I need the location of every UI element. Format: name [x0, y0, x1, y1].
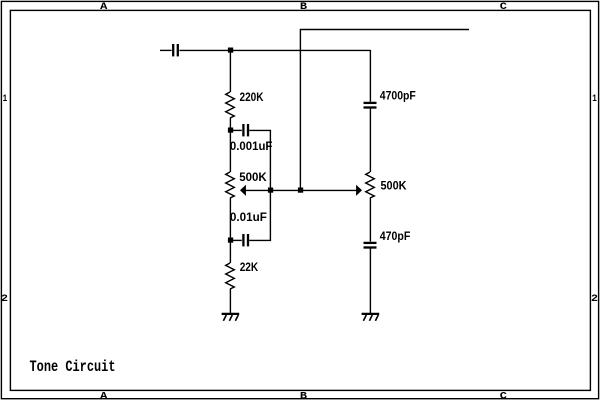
svg-text:Tone Circuit: Tone Circuit [30, 358, 116, 376]
svg-text:2: 2 [591, 294, 598, 305]
svg-text:500K: 500K [381, 179, 407, 193]
svg-text:470pF: 470pF [380, 229, 411, 243]
svg-text:A: A [100, 2, 107, 13]
svg-text:220K: 220K [240, 90, 264, 104]
svg-text:1: 1 [592, 94, 597, 105]
svg-text:500K: 500K [239, 170, 267, 184]
svg-text:0.01uF: 0.01uF [230, 210, 267, 224]
svg-text:2: 2 [1, 294, 8, 305]
svg-text:4700pF: 4700pF [380, 88, 416, 102]
svg-text:C: C [500, 2, 507, 13]
svg-text:1: 1 [3, 94, 8, 105]
svg-text:B: B [300, 391, 307, 400]
svg-text:B: B [300, 2, 307, 13]
svg-text:22K: 22K [240, 260, 259, 274]
svg-text:A: A [100, 391, 107, 400]
svg-text:C: C [500, 391, 507, 400]
svg-text:0.001uF: 0.001uF [230, 139, 273, 153]
